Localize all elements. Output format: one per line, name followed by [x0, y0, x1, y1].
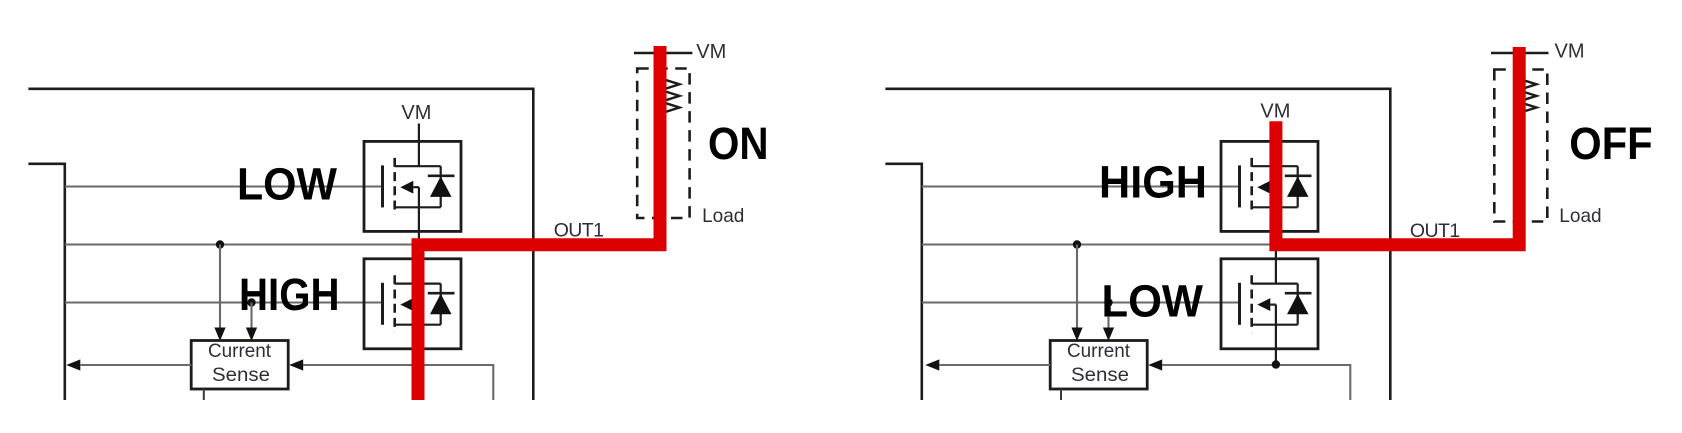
svg-text:ON: ON — [708, 118, 769, 169]
inductor (load coil chevrons) — [1518, 79, 1537, 91]
arrowhead into Current Sense top (left tap) — [214, 328, 225, 342]
node junction dot on OUT wire — [1073, 240, 1081, 248]
wire: load VM supply — [634, 52, 693, 55]
arrowhead into Current Sense top (left tap) — [1071, 328, 1082, 342]
svg-text:VM: VM — [1555, 41, 1585, 63]
node junction dot on feedback wire — [415, 360, 423, 368]
wire: OUT1 node horizontal — [65, 243, 660, 245]
svg-text:LOW: LOW — [1102, 276, 1204, 327]
arrowhead into Current Sense top (right tap) — [246, 328, 257, 342]
load dashed box — [1494, 70, 1547, 222]
wire: HIGH gate input to low-side FET gate — [65, 301, 383, 303]
wire: LOW gate input to high-side FET gate — [65, 185, 383, 187]
input corner wire (left side bus) — [885, 164, 921, 400]
wire: current sense output — [939, 364, 1050, 366]
wire: OUT1 node horizontal — [922, 243, 1517, 245]
wire: VM terminal into high-side FET — [418, 124, 420, 142]
svg-text:LOW: LOW — [237, 159, 337, 210]
svg-text:Current: Current — [1067, 341, 1131, 362]
wire: stub below Current Sense — [1060, 389, 1062, 400]
svg-text:Load: Load — [1559, 205, 1601, 227]
svg-text:VM: VM — [696, 41, 726, 63]
svg-text:Sense: Sense — [1071, 365, 1129, 386]
wire: high-side to low-side interconnect (OUT node) — [1275, 231, 1277, 258]
inductor (load coil chevrons) — [661, 79, 680, 91]
svg-text:Current: Current — [208, 341, 272, 362]
svg-text:OFF: OFF — [1569, 118, 1652, 169]
input corner wire (left side bus) — [28, 164, 64, 400]
transistor: high-side FET (right figure) — [1221, 141, 1318, 231]
wire: stub below Current Sense — [203, 389, 205, 400]
arrowhead into Current Sense top (right tap) — [1103, 328, 1114, 342]
node junction dot on feedback wire — [1272, 360, 1280, 368]
Current Sense block — [1050, 341, 1147, 390]
wire: feedback from low-side source — [1162, 365, 1350, 400]
arrowhead: feedback into Current Sense right edge — [1148, 359, 1162, 370]
outer device box (top + right edges) — [885, 89, 1390, 400]
arrowhead: current sense output to left bus — [66, 359, 80, 370]
wire: OUT sense tap down to Current Sense — [1076, 245, 1078, 331]
node junction dot on LOW gate wire — [1104, 298, 1112, 306]
svg-text:HIGH: HIGH — [1099, 157, 1207, 208]
wire: HIGH gate input to high-side FET gate — [922, 185, 1240, 187]
transistor: high-side FET (left figure) — [364, 141, 461, 231]
arrowhead: feedback into Current Sense right edge — [289, 359, 303, 370]
Current Sense block — [191, 341, 288, 390]
wire: load VM supply — [1491, 52, 1549, 55]
wire: low-side source stub — [418, 349, 420, 365]
wire: high-side to low-side interconnect (OUT node) — [418, 231, 420, 258]
transistor: low-side FET (right figure) — [1221, 259, 1318, 349]
svg-text:Sense: Sense — [212, 365, 270, 386]
wire: current sense output — [80, 364, 191, 366]
node junction dot on OUT wire — [216, 240, 224, 248]
red current path: VM through high-side FET to OUT1 and load — [1276, 47, 1519, 245]
svg-text:Load: Load — [702, 205, 744, 227]
wire: VM terminal into high-side FET — [1275, 124, 1277, 142]
svg-text:HIGH: HIGH — [239, 269, 340, 320]
load dashed box — [637, 69, 689, 219]
arrowhead: current sense output to left bus — [925, 359, 939, 370]
wire: gate sense tap down to Current Sense — [250, 303, 252, 331]
wire: LOW gate input to low-side FET gate — [922, 301, 1240, 303]
wire: feedback from low-side source — [303, 365, 493, 400]
transistor: low-side FET (left figure) — [364, 259, 461, 349]
wire: gate sense tap down to Current Sense — [1107, 303, 1109, 331]
red current path: VM through load to OUT1 and low-side to ground — [418, 46, 660, 400]
outer device box (top + right edges) — [28, 89, 533, 400]
svg-text:VM: VM — [401, 102, 431, 124]
node junction dot on HIGH gate wire — [247, 298, 255, 306]
wire: low-side source stub — [1275, 349, 1277, 365]
svg-text:VM: VM — [1260, 101, 1290, 123]
wire: OUT sense tap down to Current Sense — [219, 245, 221, 331]
